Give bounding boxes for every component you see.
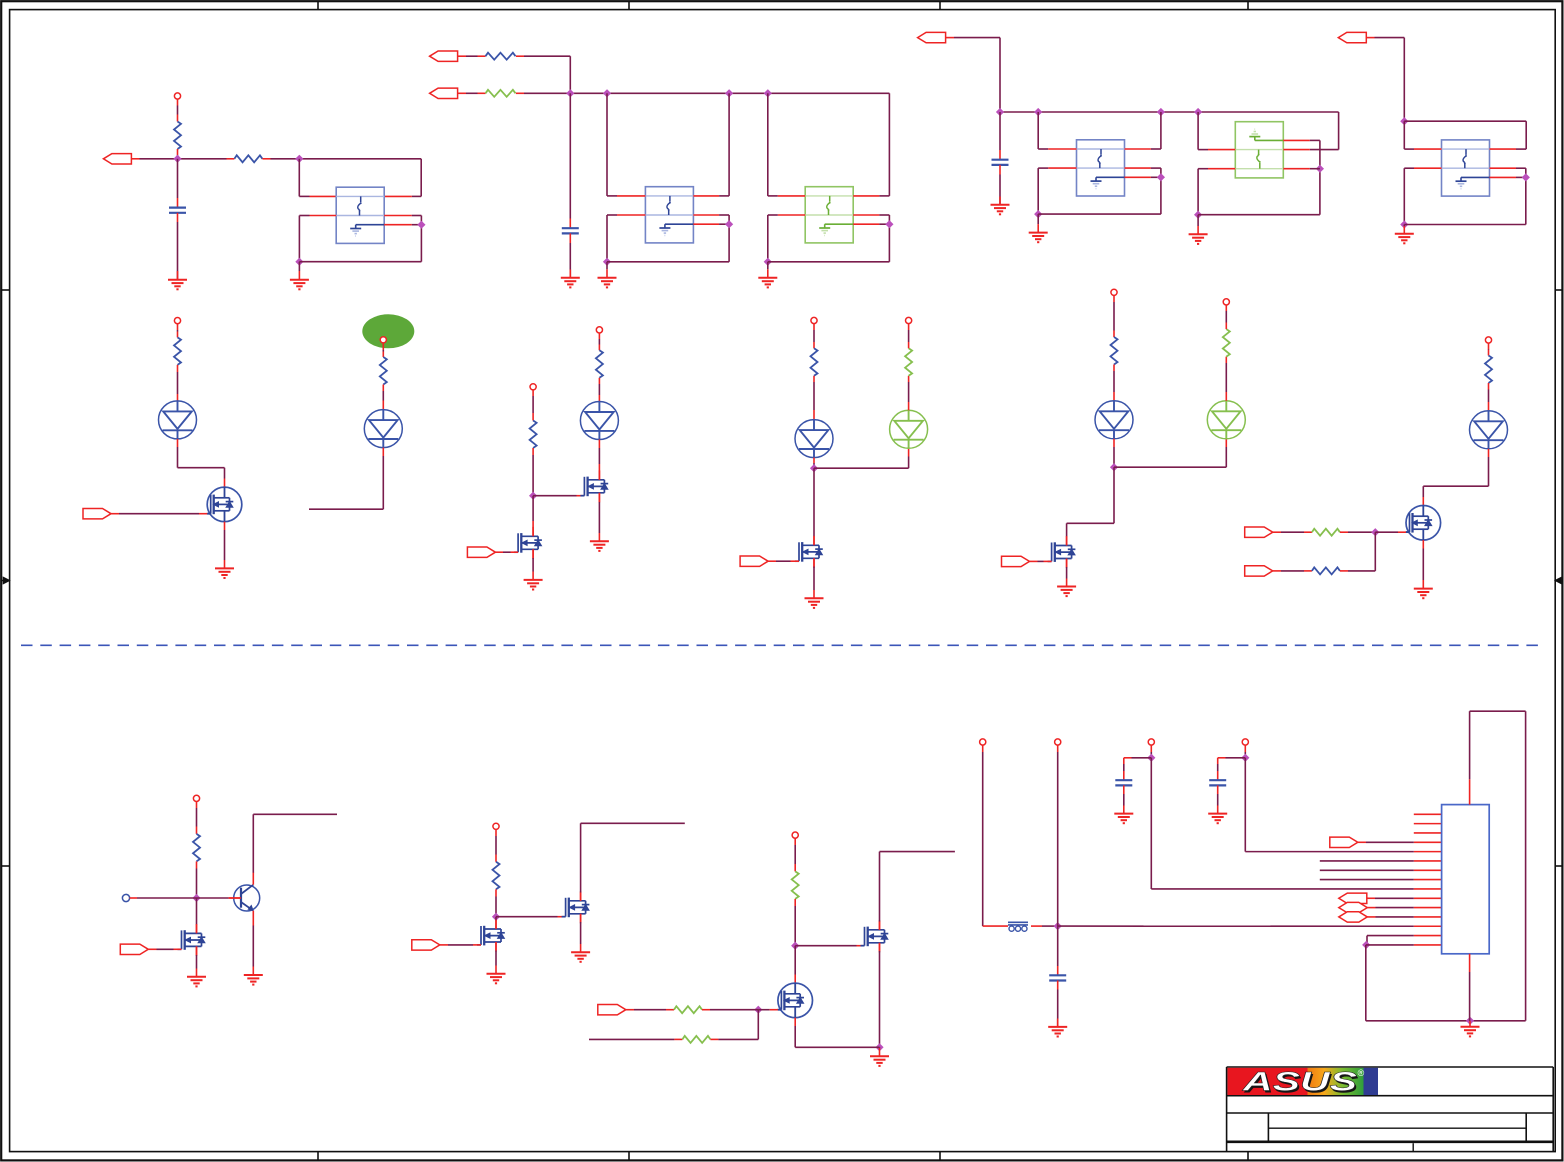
svg-text:ASUS: ASUS [1241,1067,1357,1097]
svg-text:®: ® [1358,1068,1365,1078]
